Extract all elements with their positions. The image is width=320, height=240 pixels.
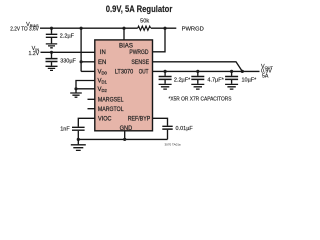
- svg-text:0.01µF: 0.01µF: [176, 126, 194, 132]
- wire: VIOC to C3: [78, 118, 95, 126]
- svg-text:VD1: VD1: [98, 79, 108, 85]
- svg-text:GND: GND: [120, 126, 133, 132]
- svg-text:LT3070: LT3070: [115, 70, 134, 76]
- node: COUT2 junction: [196, 70, 199, 73]
- svg-text:2.2V TO 3.6V: 2.2V TO 3.6V: [10, 27, 39, 33]
- wire: VD1/VD2 to ground: [76, 81, 95, 89]
- node: EN junction: [80, 60, 83, 63]
- svg-text:3070 TA01a: 3070 TA01a: [165, 142, 181, 146]
- capacitor C6 4.7uF*: [197, 71, 199, 76]
- svg-text:0.9V, 5A Regulator: 0.9V, 5A Regulator: [106, 4, 173, 14]
- ground (C1): [46, 44, 57, 48]
- svg-text:*X5R OR X7R CAPACITORS: *X5R OR X7R CAPACITORS: [169, 96, 232, 102]
- wire: BIAS pin drop: [123, 28, 125, 40]
- wire: VD0 stub: [81, 70, 95, 72]
- node: SENSE-OUT junction: [241, 70, 244, 73]
- resistor R1 50k: [138, 26, 151, 30]
- wire: VBIAS to EN and VD0 vertical: [80, 28, 82, 71]
- svg-text:330µF: 330µF: [60, 58, 76, 64]
- ground (main rail): [77, 139, 79, 144]
- capacitor C5 2.2uF*: [164, 71, 166, 76]
- node: COUT1 junction: [164, 70, 167, 73]
- svg-text:VD0: VD0: [98, 70, 108, 76]
- svg-text:IN: IN: [100, 50, 106, 56]
- svg-text:REF/BYP: REF/BYP: [128, 116, 151, 122]
- svg-text:2.2µF*: 2.2µF*: [174, 77, 191, 83]
- IC U1 LT3070 body: [95, 40, 153, 131]
- ground (C2): [46, 66, 58, 70]
- node: VBIAS-EN/VD0 junction: [80, 27, 83, 30]
- svg-text:4.7µF*: 4.7µF*: [207, 77, 224, 83]
- ground (C5): [159, 84, 172, 89]
- capacitor C2 330uF: [51, 52, 53, 58]
- ground (C6): [191, 84, 204, 89]
- capacitor C1 2.2uF: [51, 28, 53, 34]
- ground (C7): [225, 84, 238, 89]
- wire: VBIAS rail: [40, 27, 176, 29]
- ground (VD1/VD2): [75, 89, 77, 93]
- wire: REF/BYP to C4: [153, 118, 168, 125]
- svg-text:2.2µF: 2.2µF: [60, 34, 75, 40]
- svg-text:PWRGD: PWRGD: [182, 27, 204, 33]
- node: VBIAS-BIAS pin junction: [122, 27, 125, 30]
- svg-text:10µF*: 10µF*: [242, 77, 258, 83]
- wire: PWRGD pull-up drop: [153, 28, 166, 52]
- node: VIN-330uF junction: [50, 51, 53, 54]
- node: VBIAS-2.2uF junction: [50, 27, 53, 30]
- wire: GND pin stub: [124, 131, 126, 140]
- node: 1nF-rail junction: [77, 138, 80, 141]
- node: COUT3 junction: [230, 70, 233, 73]
- svg-text:50k: 50k: [140, 18, 149, 24]
- capacitor C7 10uF*: [231, 71, 233, 76]
- wire: bottom ground rail: [78, 138, 167, 140]
- svg-text:BIAS: BIAS: [119, 43, 133, 49]
- svg-text:VIOC: VIOC: [98, 116, 112, 122]
- IC U1 pin labels: [98, 43, 151, 132]
- svg-text:MARGSEL: MARGSEL: [98, 97, 124, 103]
- wire: MARGTOL stub: [88, 108, 95, 110]
- svg-text:SENSE: SENSE: [131, 60, 149, 66]
- svg-text:EN: EN: [98, 60, 106, 66]
- node: GND-rail junction: [123, 138, 126, 141]
- node: VD2 junction: [74, 87, 77, 90]
- wire: VIN rail: [41, 51, 95, 53]
- wire: MARGSEL stub: [88, 98, 95, 100]
- svg-text:OUT: OUT: [139, 70, 149, 76]
- node: PWRGD junction: [163, 27, 166, 30]
- svg-text:1.2V: 1.2V: [29, 51, 40, 57]
- wire: EN stub: [81, 61, 95, 63]
- wire: OUT rail: [153, 70, 260, 72]
- svg-text:1nF: 1nF: [60, 126, 70, 132]
- svg-text:VD2: VD2: [98, 87, 108, 93]
- svg-text:PWRGD: PWRGD: [129, 50, 149, 56]
- capacitor C3 1nF: [72, 127, 85, 130]
- svg-text:MARGTOL: MARGTOL: [98, 107, 124, 113]
- svg-text:5A: 5A: [262, 74, 269, 80]
- capacitor C4 0.01uF: [162, 126, 172, 129]
- wire: SENSE run with diagonal to output: [153, 62, 243, 72]
